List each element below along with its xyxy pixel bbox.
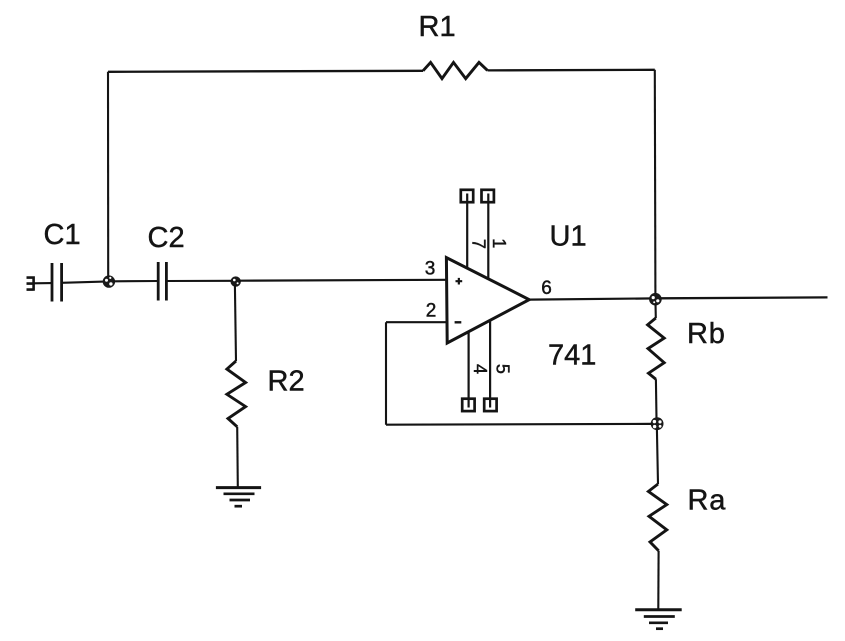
wire node D down to R2	[235, 285, 236, 361]
svg-text:6: 6	[541, 278, 552, 299]
pin 7 wire	[466, 194, 468, 270]
resistor R2	[227, 361, 246, 427]
svg-text:741: 741	[548, 339, 596, 371]
ground under R2	[216, 488, 261, 507]
wire C1 to node A	[62, 281, 109, 282]
resistor Ra	[648, 484, 666, 551]
wire top left to R1	[108, 71, 423, 72]
pin 4 wire	[468, 332, 470, 408]
wire C2 to node D	[166, 280, 234, 282]
svg-text:4: 4	[470, 364, 490, 374]
capacitor C1	[52, 263, 62, 302]
ground under Ra	[635, 610, 682, 629]
feedback wire up	[385, 322, 387, 425]
pin 5 wire	[489, 320, 491, 407]
op-amp U1	[446, 258, 529, 343]
resistor R1	[423, 62, 488, 78]
node A	[103, 275, 115, 287]
pin 1 terminal	[482, 190, 494, 202]
wire Rb to node C	[655, 379, 658, 419]
feedback wire node C to left	[386, 423, 652, 426]
resistor Rb	[648, 318, 665, 379]
svg-text:5: 5	[493, 364, 513, 374]
svg-text:R1: R1	[419, 11, 456, 43]
output wire to right edge	[660, 296, 827, 299]
pin 4 terminal	[462, 399, 474, 411]
wire input to C1	[34, 282, 52, 284]
svg-text:U1: U1	[550, 221, 587, 253]
pin 7 terminal	[461, 190, 473, 202]
node C	[651, 417, 664, 430]
pin 5 terminal	[484, 399, 496, 411]
svg-text:Rb: Rb	[687, 318, 726, 350]
svg-text:3: 3	[425, 259, 436, 280]
wire Ra to ground	[657, 551, 659, 609]
feedback wire to op-amp pin 2	[386, 321, 447, 323]
node B	[649, 293, 662, 306]
svg-text:R2: R2	[268, 365, 305, 397]
wire node A up	[107, 72, 109, 277]
wire R2 to ground	[236, 427, 239, 487]
svg-text:2: 2	[426, 301, 437, 322]
svg-text:C2: C2	[148, 222, 185, 254]
svg-text:7: 7	[469, 239, 489, 249]
wire node B down to Rb	[654, 303, 656, 318]
wire op-amp output pin 6 to node B	[529, 298, 655, 299]
capacitor C2	[158, 262, 166, 301]
wire node C down to Ra	[657, 429, 658, 484]
wire top right corner down to node B	[654, 70, 657, 294]
svg-text:1: 1	[489, 238, 509, 248]
svg-text:C1: C1	[44, 219, 81, 251]
wire node D to op-amp pin 3	[239, 279, 447, 282]
node D	[231, 276, 241, 286]
wire node A to C2	[113, 280, 158, 282]
pin 1 wire	[487, 194, 489, 280]
wire R1 to top right corner	[488, 69, 655, 72]
svg-text:Ra: Ra	[688, 485, 727, 517]
input terminal	[27, 276, 34, 290]
